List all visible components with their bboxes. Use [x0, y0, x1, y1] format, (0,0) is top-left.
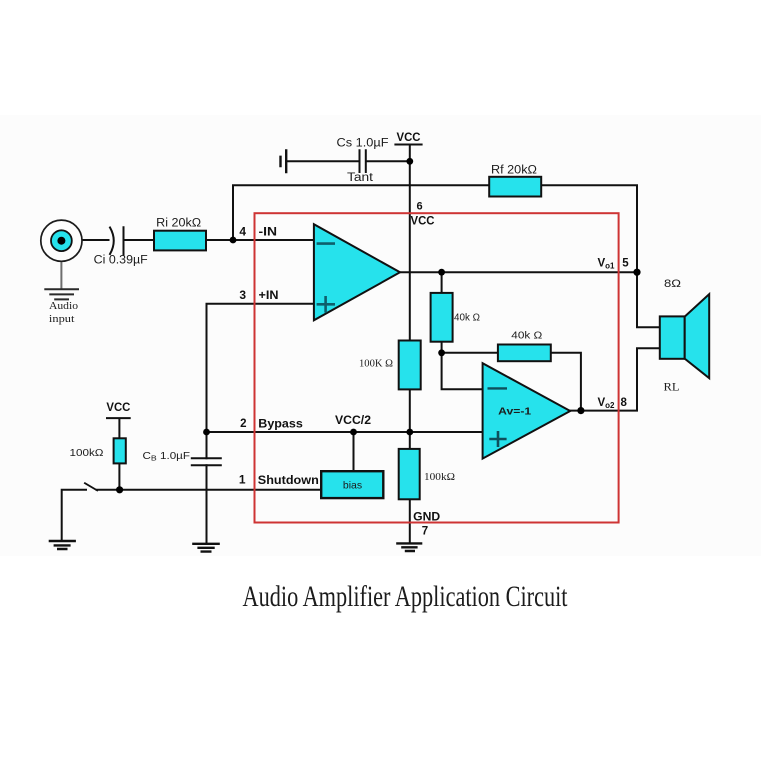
- svg-text:VCC: VCC: [106, 402, 130, 414]
- IC boundary box: [255, 213, 619, 522]
- svg-text:Rf 20kΩ: Rf 20kΩ: [491, 165, 537, 177]
- op-amp U1 output wire: [400, 271, 637, 273]
- junction node VCC/2: [350, 429, 357, 436]
- wire input net pin4: [65, 239, 314, 241]
- wire top feedback rail: [233, 185, 637, 272]
- wire pin3 +IN net: [207, 304, 314, 432]
- svg-text:VCC: VCC: [397, 132, 421, 144]
- switch SW1 lever: [85, 483, 97, 490]
- wire shutdown net pin1: [62, 490, 326, 541]
- svg-text:Bypass: Bypass: [258, 419, 303, 431]
- svg-text:8Ω: 8Ω: [664, 278, 681, 290]
- speaker RL: [660, 294, 709, 378]
- resistor 40k horizontal: [498, 345, 551, 362]
- junction node bypass divider: [406, 429, 413, 436]
- svg-text:2: 2: [240, 418, 246, 430]
- wire VCC branch left: [107, 418, 130, 490]
- resistor 100K upper: [399, 341, 421, 390]
- connector J1 audio jack: [41, 220, 82, 261]
- resistor Ri: [154, 231, 206, 251]
- svg-text:5: 5: [622, 258, 629, 270]
- svg-text:100kΩ: 100kΩ: [70, 448, 105, 459]
- svg-text:VCC/2: VCC/2: [335, 415, 371, 427]
- junction node bypass left: [203, 429, 210, 436]
- block bias: [321, 471, 383, 498]
- wire Vo1 to speaker: [637, 272, 660, 327]
- svg-text:Ci 0.39µF: Ci 0.39µF: [94, 255, 148, 267]
- junction node 40k mid: [438, 349, 445, 356]
- svg-text:GND: GND: [413, 511, 440, 523]
- svg-text:6: 6: [416, 201, 422, 213]
- op-amp U1: [314, 224, 400, 320]
- svg-text:7: 7: [422, 526, 428, 538]
- capacitor CB plates: [192, 458, 221, 465]
- wire bypass net pin2: [207, 432, 483, 471]
- ground switch: [49, 541, 76, 549]
- svg-text:Cs 1.0µF: Cs 1.0µF: [337, 136, 389, 150]
- svg-text:8: 8: [621, 397, 628, 409]
- resistor 100k left: [114, 438, 126, 463]
- svg-text:+IN: +IN: [259, 290, 279, 302]
- svg-text:Av=-1: Av=-1: [498, 405, 531, 417]
- svg-text:Ri 20kΩ: Ri 20kΩ: [156, 218, 201, 230]
- svg-text:Shutdown: Shutdown: [258, 475, 319, 487]
- op-amp U2 Av=-1: [483, 363, 571, 458]
- svg-text:-IN: -IN: [259, 227, 278, 239]
- svg-text:1: 1: [239, 473, 246, 487]
- svg-text:VCC: VCC: [411, 216, 435, 228]
- junction node Cs-VCC: [406, 158, 413, 165]
- scan background tint: [0, 115, 761, 556]
- supply return stub bars left of Cs: [281, 151, 287, 173]
- svg-text:Audio: Audio: [49, 300, 79, 312]
- wire Cs to VCC node: [286, 160, 410, 162]
- VCC rail vertical: [395, 145, 421, 544]
- svg-text:40k Ω: 40k Ω: [511, 330, 543, 341]
- svg-text:4: 4: [239, 225, 246, 239]
- svg-text:Tant: Tant: [347, 172, 374, 184]
- ground audio jack: [45, 262, 78, 300]
- resistor 100k lower: [399, 449, 420, 499]
- junction node 40k divider: [438, 269, 445, 276]
- junction node pin4: [230, 237, 237, 244]
- resistor Rf: [489, 177, 541, 197]
- svg-text:bias: bias: [343, 480, 362, 492]
- capacitor Cs plates: [360, 150, 366, 172]
- wire Vo2 net: [570, 348, 660, 410]
- svg-text:40k Ω: 40k Ω: [454, 313, 481, 324]
- junction node shutdown switch: [116, 486, 123, 493]
- ground CB: [192, 544, 220, 552]
- svg-text:CB 1.0µF: CB 1.0µF: [143, 451, 191, 463]
- svg-text:100K Ω: 100K Ω: [359, 359, 393, 370]
- resistor 40k vertical: [431, 293, 453, 342]
- capacitor Ci plates: [110, 227, 124, 254]
- wire CB branch: [206, 432, 208, 544]
- svg-text:input: input: [49, 313, 75, 325]
- junction node Av apex: [577, 407, 584, 414]
- junction node Vo1: [633, 269, 640, 276]
- svg-text:3: 3: [239, 288, 246, 302]
- svg-text:100kΩ: 100kΩ: [424, 472, 455, 483]
- wire 40k divider branch: [442, 272, 498, 389]
- wire 40k feedback to Av apex: [551, 353, 581, 411]
- svg-text:RL: RL: [664, 382, 680, 394]
- ground GND pin7: [396, 543, 422, 551]
- svg-text:Audio Amplifier Application Ci: Audio Amplifier Application Circuit: [243, 581, 568, 613]
